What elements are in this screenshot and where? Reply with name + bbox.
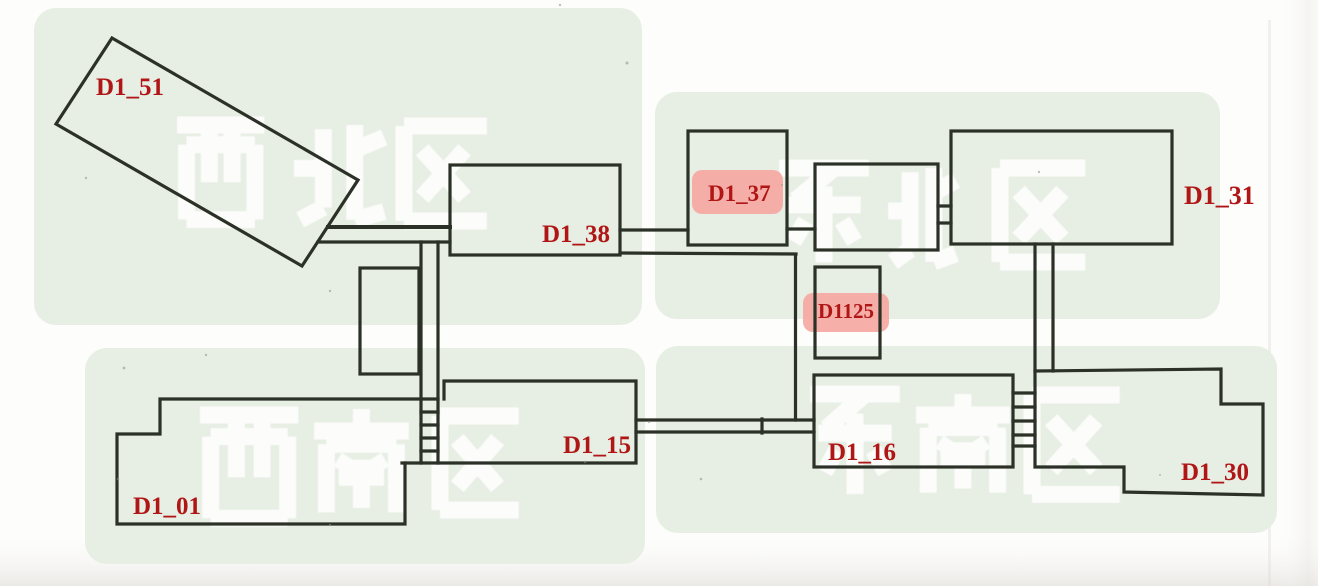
svg-text:D1_30: D1_30: [1181, 459, 1249, 486]
svg-text:D1_16: D1_16: [828, 439, 896, 466]
svg-text:D1_51: D1_51: [96, 74, 164, 101]
svg-text:D1_15: D1_15: [563, 432, 631, 459]
svg-text:D1_38: D1_38: [542, 221, 610, 248]
svg-text:D1_31: D1_31: [1184, 181, 1255, 210]
svg-text:D1_37: D1_37: [708, 181, 771, 206]
svg-text:D1125: D1125: [818, 299, 874, 323]
svg-text:D1_01: D1_01: [133, 493, 201, 520]
